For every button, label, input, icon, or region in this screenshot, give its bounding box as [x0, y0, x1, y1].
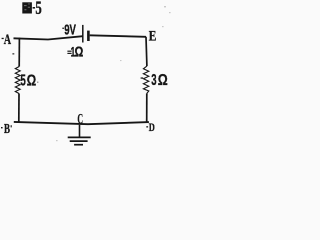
- battery 9V short plate: [87, 31, 90, 41]
- resistor value label 5Ω: [20, 73, 36, 90]
- svg-text:Ω: Ω: [75, 45, 84, 61]
- faint scan speckles: [37, 6, 171, 141]
- svg-text:9V: 9V: [64, 22, 76, 39]
- tick mark near right resistor: [141, 77, 144, 79]
- svg-text:5: 5: [20, 73, 26, 90]
- resistor R-right 3Ω zigzag: [143, 66, 148, 93]
- ground symbol bars: [68, 137, 91, 144]
- figure number 5: [33, 0, 42, 19]
- battery 9V long plate: [82, 25, 84, 43]
- tick mark near left wire: [12, 53, 14, 54]
- node A label: [2, 32, 12, 48]
- svg-text:D: D: [149, 122, 155, 134]
- svg-text:A: A: [4, 32, 12, 48]
- node D label: [146, 122, 155, 134]
- svg-text:3: 3: [151, 72, 156, 89]
- battery internal resistance label =1Ω: [67, 44, 83, 60]
- wire bottom (B to D): [14, 122, 149, 124]
- wire right vertical upper (E corner to resistor): [145, 37, 148, 66]
- node B label: [1, 121, 12, 136]
- resistor value label 3Ω: [151, 72, 168, 89]
- resistor R-left 5Ω zigzag: [15, 67, 20, 94]
- wire left vertical upper (A corner to resistor): [18, 38, 20, 67]
- svg-text:B: B: [4, 121, 10, 136]
- wire right vertical lower (resistor to D corner): [146, 93, 148, 122]
- wire top-left (A to battery): [14, 36, 83, 39]
- ground stem wire at C: [79, 125, 81, 137]
- wire top-right (battery to E corner): [90, 35, 146, 37]
- svg-text:E: E: [149, 29, 157, 45]
- svg-text:Ω: Ω: [158, 72, 168, 89]
- wire left vertical lower (resistor to B corner): [18, 94, 20, 123]
- figure label icon (boxed character): [22, 2, 32, 13]
- svg-text:Ω: Ω: [27, 73, 37, 90]
- svg-text:5: 5: [35, 0, 41, 19]
- battery value label 9V: [62, 22, 76, 39]
